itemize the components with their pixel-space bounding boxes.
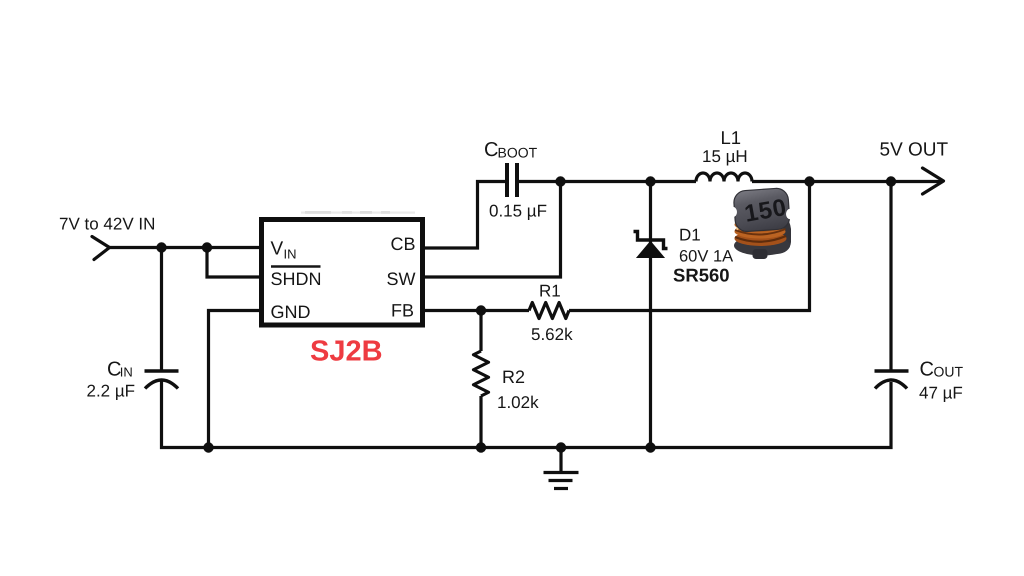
wire: COUT top	[889, 183, 892, 370]
wire: D1 vertical	[649, 182, 652, 448]
node: R2 bottom junction	[476, 442, 486, 452]
flange notches	[729, 207, 737, 217]
node: SW/CBOOT junction	[555, 176, 565, 186]
svg-text:C: C	[484, 139, 498, 161]
base right shoulder	[766, 212, 791, 254]
node: D1 top junction	[645, 176, 655, 186]
resistor R2	[474, 351, 489, 396]
ground	[556, 442, 566, 452]
wire: SHDN branch	[207, 248, 261, 278]
svg-text:V: V	[271, 239, 284, 260]
wire: input line to VIN pin	[109, 246, 261, 249]
ghost erased part number above IC	[301, 211, 415, 214]
node: input junction at SHDN	[202, 242, 212, 252]
node: COUT top junction	[886, 176, 896, 186]
wire: R2 to bottom rail	[479, 396, 482, 448]
svg-text:BOOT: BOOT	[498, 145, 538, 161]
wire: CIN branch vertical (top)	[160, 248, 163, 370]
node: GND branch junction	[203, 442, 213, 452]
wire: R1 to output rail (feedback riser)	[569, 183, 810, 311]
copper winding	[735, 231, 787, 246]
wire: top rail CBOOT to L1	[519, 180, 696, 183]
svg-text:47 µF: 47 µF	[919, 384, 963, 403]
inductor L1 symbol	[696, 173, 752, 182]
svg-text:R2: R2	[502, 367, 525, 387]
svg-text:SR560: SR560	[673, 265, 730, 286]
capacitor CIN (plates)	[145, 369, 179, 372]
core top face	[733, 188, 790, 233]
svg-text:R1: R1	[539, 282, 561, 301]
svg-text:SW: SW	[387, 269, 416, 289]
svg-text:SHDN: SHDN	[271, 269, 322, 289]
input arrow (open chevron)	[92, 237, 110, 260]
output arrow (open chevron)	[923, 168, 944, 194]
pin label: SHDN (with overline)	[271, 265, 321, 268]
wire: CIN branch vertical (bottom) + bottom rail + COUT riser	[162, 381, 892, 448]
svg-text:D1: D1	[679, 226, 701, 245]
svg-text:60V 1A: 60V 1A	[679, 248, 733, 266]
svg-text:15 µH: 15 µH	[702, 147, 748, 166]
wire: FB junction down to R2	[479, 311, 482, 352]
wire: GND branch	[209, 311, 262, 449]
capacitor COUT (plates)	[875, 369, 909, 372]
capacitor CBOOT (plates)	[505, 163, 509, 197]
svg-text:GND: GND	[271, 302, 311, 322]
IC U1 SJ2B regulator box	[262, 220, 423, 326]
inductor L1 photo	[729, 188, 794, 259]
base bottom flange	[734, 236, 790, 256]
svg-text:7V to 42V IN: 7V to 42V IN	[59, 215, 155, 234]
wire: output rail L1 to arrow	[752, 180, 942, 183]
svg-text:IN: IN	[284, 247, 297, 262]
svg-text:0.15 µF: 0.15 µF	[489, 202, 547, 221]
svg-text:CB: CB	[391, 234, 416, 254]
svg-text:1.02k: 1.02k	[497, 393, 539, 412]
svg-text:IN: IN	[120, 365, 133, 380]
svg-text:OUT: OUT	[934, 364, 964, 380]
svg-text:5V OUT: 5V OUT	[880, 140, 949, 161]
svg-text:L1: L1	[721, 127, 742, 148]
svg-text:5.62k: 5.62k	[531, 325, 573, 344]
wire: CB to CBOOT	[422, 182, 505, 249]
svg-text:SJ2B: SJ2B	[310, 336, 383, 368]
node: input junction at CIN	[156, 242, 166, 252]
node: FB/R2 junction	[476, 305, 486, 315]
svg-text:FB: FB	[391, 301, 414, 321]
svg-text:C: C	[920, 359, 934, 381]
resistor R1	[529, 303, 569, 319]
svg-text:2.2 µF: 2.2 µF	[87, 382, 136, 401]
wire: FB to R1	[422, 309, 529, 312]
diode D1 (schottky)	[637, 242, 664, 258]
node: feedback tap on rail	[804, 176, 814, 186]
node: D1 bottom junction	[645, 442, 655, 452]
wire: SW to top rail	[422, 183, 561, 277]
